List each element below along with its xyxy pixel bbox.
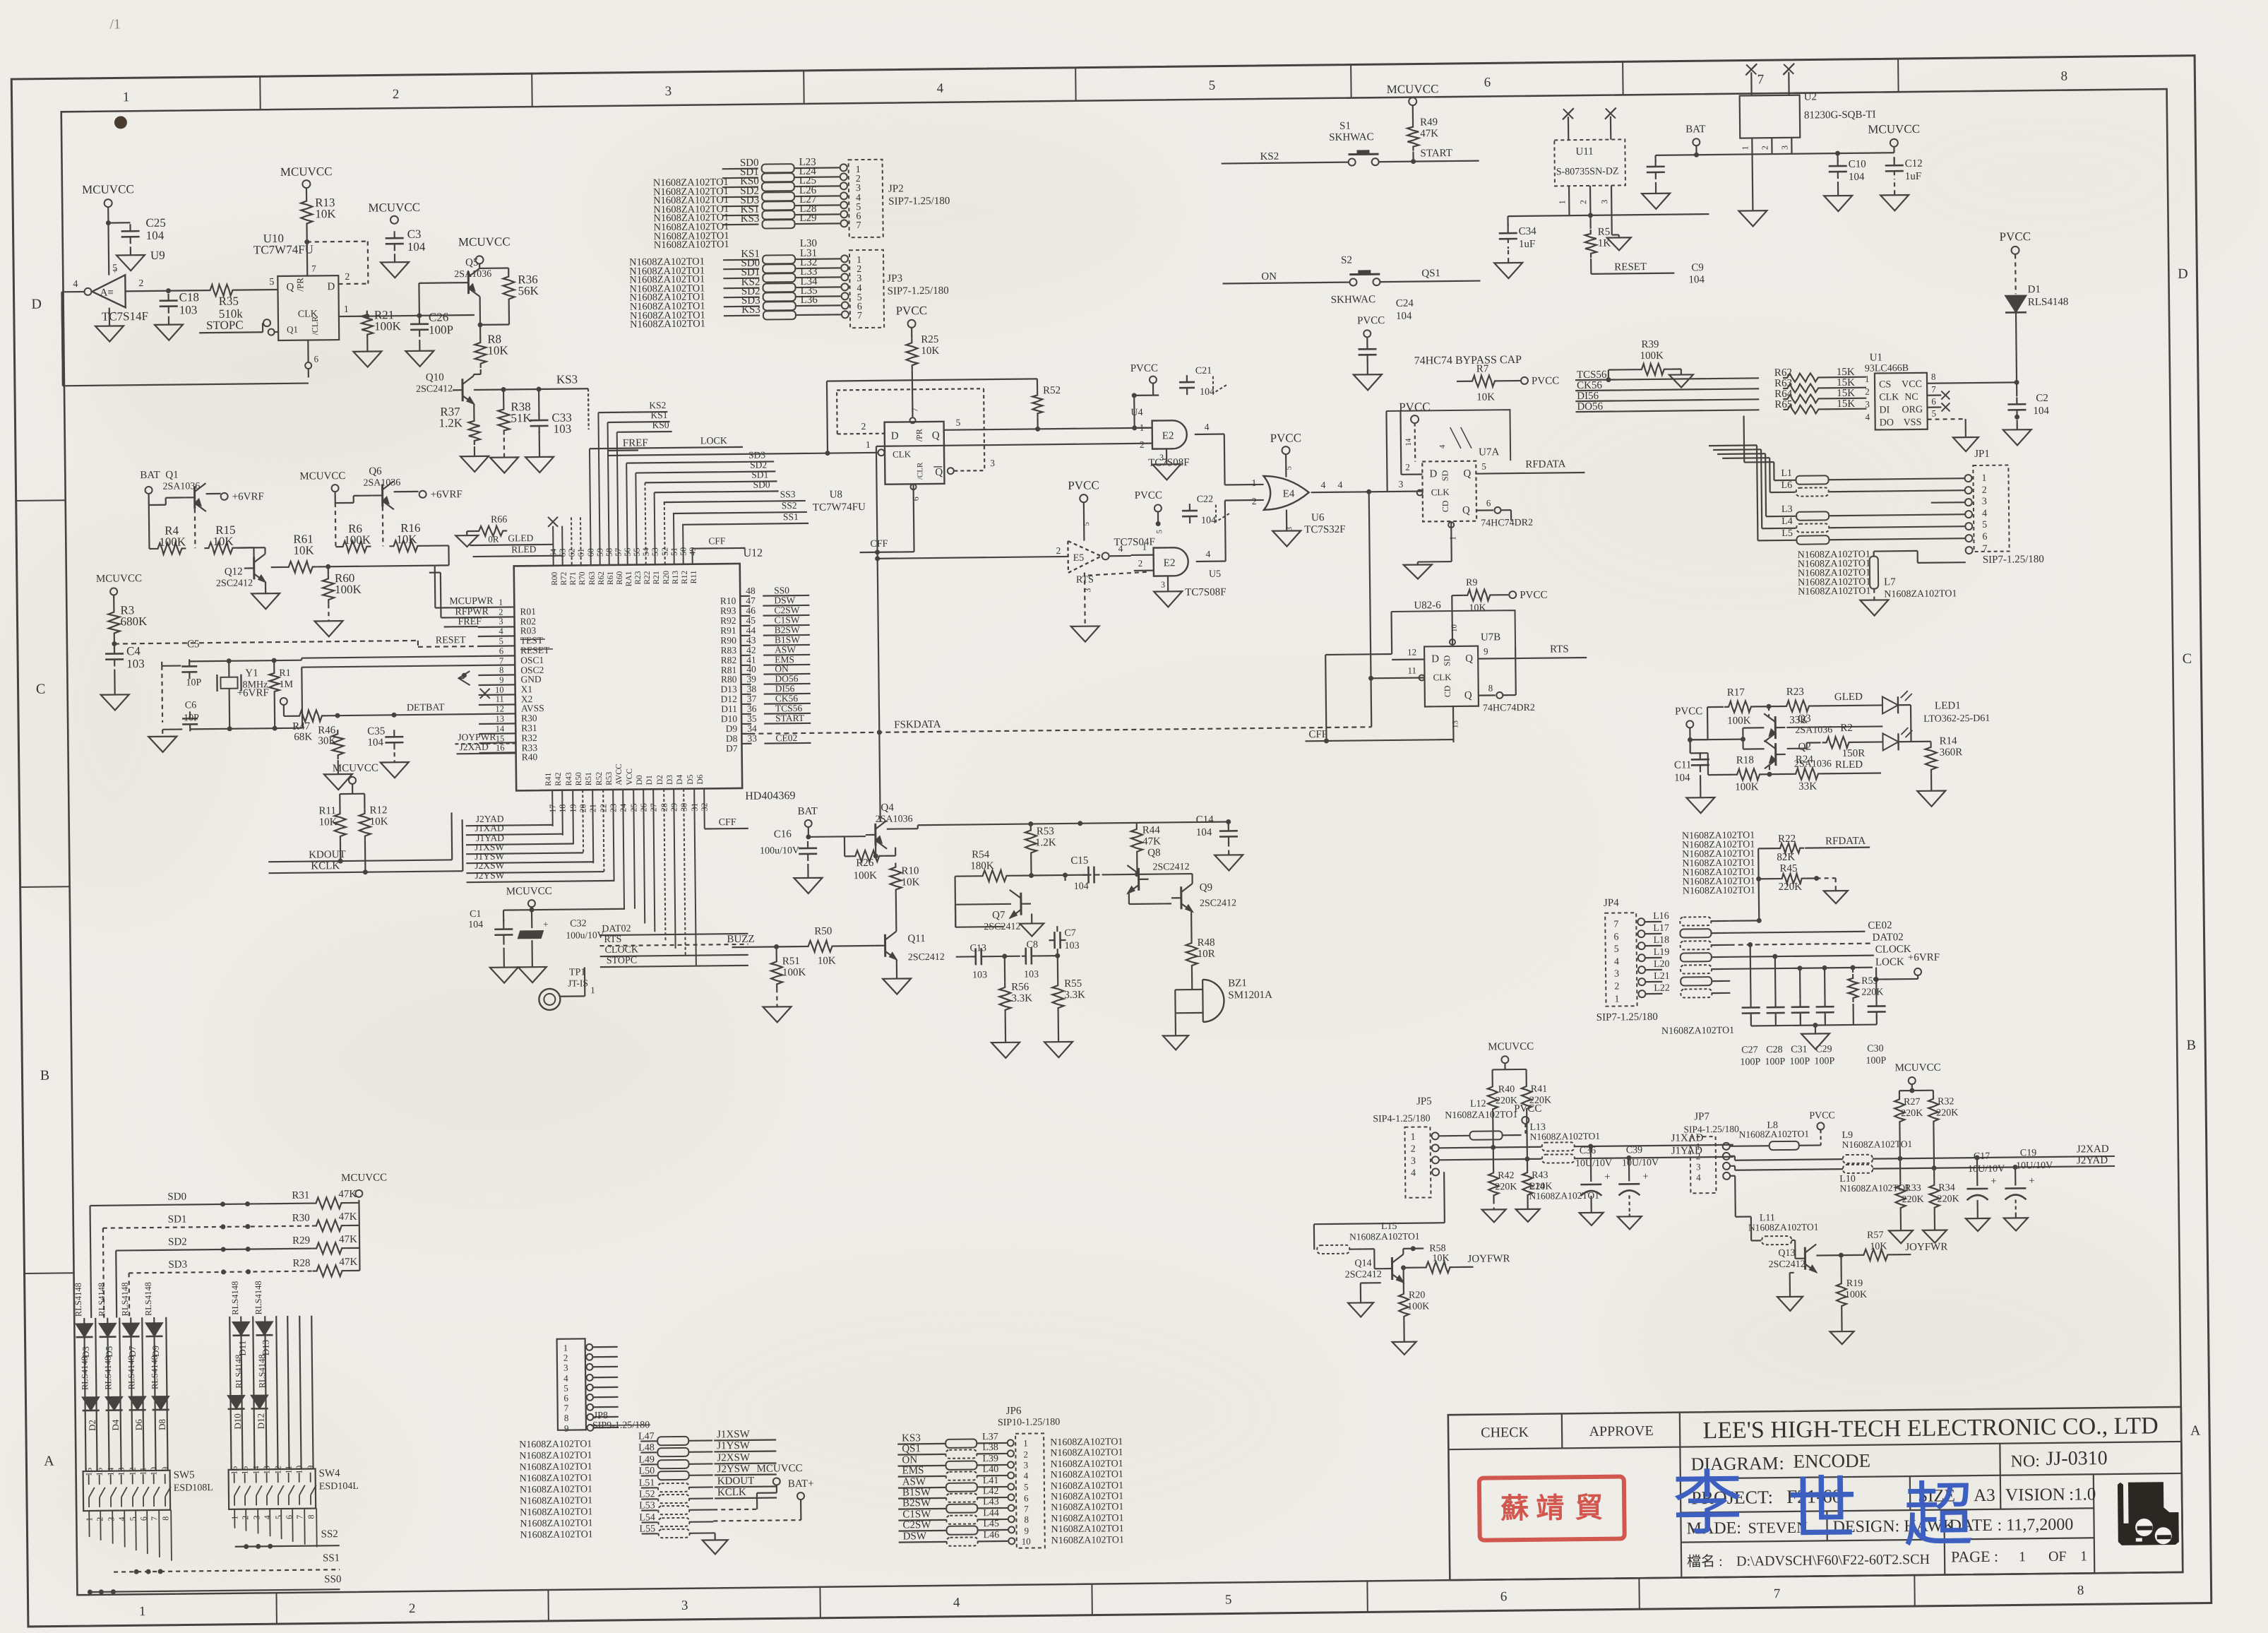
- resistor R9: [1452, 577, 1548, 618]
- svg-text:+6VRF: +6VRF: [431, 489, 462, 500]
- svg-text:Q: Q: [1464, 690, 1472, 701]
- svg-text:220K: 220K: [1779, 881, 1803, 893]
- svg-text:-: -: [113, 306, 117, 316]
- power PVCC (JP5): [1514, 1103, 1542, 1135]
- zone letter band right: [2119, 266, 2209, 1439]
- resistor R55: [1052, 956, 1086, 1013]
- connector JP2: [849, 159, 950, 238]
- svg-text:MCUVCC: MCUVCC: [299, 470, 345, 482]
- svg-text:FREF: FREF: [623, 437, 648, 449]
- svg-text:3: 3: [1411, 1156, 1416, 1167]
- resistor R52: [1032, 385, 1061, 432]
- svg-text:L4: L4: [1781, 516, 1793, 527]
- svg-text:2: 2: [240, 1516, 250, 1520]
- svg-text:+6VRF: +6VRF: [1908, 952, 1940, 963]
- svg-text:PVCC: PVCC: [1809, 1110, 1835, 1121]
- svg-text:A≡: A≡: [100, 287, 113, 299]
- svg-text:1: 1: [344, 304, 349, 315]
- svg-text:7: 7: [1024, 1504, 1029, 1514]
- svg-text:AVCC: AVCC: [615, 764, 623, 785]
- op-amp U9 TC7S14F: [84, 249, 166, 323]
- svg-text:R9: R9: [1466, 578, 1478, 588]
- svg-text:R7: R7: [1476, 363, 1489, 374]
- svg-text:8: 8: [1024, 1514, 1029, 1525]
- svg-text:74HC74 BYPASS CAP: 74HC74 BYPASS CAP: [1414, 354, 1522, 367]
- svg-text:1.2K: 1.2K: [1035, 837, 1056, 848]
- svg-text:52: 52: [659, 547, 669, 556]
- svg-text:3: 3: [1614, 969, 1619, 980]
- inductor L12: [1438, 1098, 1522, 1140]
- svg-text::: :: [1779, 1453, 1784, 1473]
- svg-text:100P: 100P: [1740, 1057, 1760, 1067]
- svg-text:RFPWR: RFPWR: [455, 607, 489, 618]
- resistor R34: [1929, 1168, 1959, 1211]
- svg-text:BAT: BAT: [1685, 124, 1706, 135]
- scan dark spot: [114, 116, 127, 129]
- wire E2a pins: [876, 427, 1264, 489]
- svg-text:5: 5: [112, 263, 117, 273]
- resistor R40: [1488, 1082, 1518, 1150]
- svg-text:53: 53: [650, 547, 659, 556]
- svg-text:3: 3: [1696, 1161, 1701, 1172]
- svg-text:4: 4: [1118, 543, 1123, 554]
- ground (U11 pin3): [1607, 234, 1631, 250]
- svg-text:680K: 680K: [120, 614, 148, 628]
- part labels N1608ZA102TO1 (JP8): [519, 1439, 593, 1540]
- svg-text:220K: 220K: [1530, 1182, 1552, 1192]
- svg-text:220K: 220K: [1902, 1194, 1923, 1205]
- svg-text:C24: C24: [1396, 298, 1414, 309]
- net LOCK (JP4): [1730, 956, 1904, 971]
- wire SW4 column lines: [229, 1316, 313, 1470]
- svg-text:KDOUT: KDOUT: [717, 1475, 755, 1487]
- svg-text:7: 7: [857, 311, 862, 321]
- svg-text:/CLR: /CLR: [916, 462, 924, 480]
- svg-text:3: 3: [1982, 497, 1987, 507]
- svg-text:SD2: SD2: [168, 1236, 187, 1247]
- svg-text:Q14: Q14: [1354, 1258, 1371, 1269]
- svg-text:R23: R23: [1786, 687, 1804, 698]
- svg-text:MCUVCC: MCUVCC: [506, 886, 552, 898]
- svg-text:47K: 47K: [1420, 128, 1438, 139]
- wire U11 row: [1508, 212, 1709, 219]
- svg-text:47K: 47K: [339, 1234, 357, 1245]
- svg-text:100K: 100K: [1407, 1301, 1429, 1312]
- connector JP7: [1683, 1111, 1740, 1194]
- svg-text:D10: D10: [721, 713, 738, 724]
- svg-text:PVCC: PVCC: [1270, 431, 1302, 444]
- ground (R51): [763, 988, 792, 1022]
- svg-text:Q4: Q4: [881, 802, 894, 814]
- svg-text:1: 1: [1865, 374, 1870, 384]
- net J1YAD: [1671, 1145, 1733, 1158]
- svg-text:GLED: GLED: [1834, 691, 1863, 703]
- ground (C17): [1966, 1216, 1990, 1231]
- wire U9 input: [61, 279, 85, 386]
- svg-text:47K: 47K: [338, 1189, 357, 1200]
- resistor R23: [1755, 687, 1814, 727]
- svg-text:Q1: Q1: [165, 470, 179, 481]
- svg-text:15: 15: [95, 1468, 105, 1476]
- node QS1: [1380, 268, 1480, 283]
- svg-text:C11: C11: [1674, 759, 1692, 771]
- svg-text:靖: 靖: [1536, 1492, 1564, 1524]
- svg-text:51K: 51K: [511, 411, 532, 424]
- svg-text:R80: R80: [721, 674, 737, 684]
- svg-text:R03: R03: [520, 625, 537, 636]
- svg-text:11: 11: [138, 1467, 148, 1475]
- svg-text:C13: C13: [970, 943, 987, 954]
- wire U10 CLK out: [339, 303, 475, 319]
- svg-text:2SA1036: 2SA1036: [876, 814, 913, 825]
- svg-text:BZ1: BZ1: [1228, 978, 1247, 989]
- ground (U7A): [1404, 554, 1452, 579]
- svg-text:38: 38: [747, 684, 757, 694]
- svg-text:7: 7: [294, 1515, 304, 1519]
- svg-text:8: 8: [1488, 682, 1493, 693]
- svg-text:10K: 10K: [396, 533, 417, 546]
- svg-text:+6VRF: +6VRF: [237, 687, 269, 699]
- svg-text:TC7W74FU: TC7W74FU: [813, 501, 866, 513]
- svg-text:R52: R52: [1043, 385, 1061, 396]
- svg-text:U8: U8: [830, 489, 843, 500]
- svg-text:DETBAT: DETBAT: [407, 702, 445, 713]
- svg-text:R41: R41: [544, 772, 553, 786]
- power MCUVCC (R13): [280, 165, 333, 188]
- resistor R58: [1403, 1242, 1510, 1283]
- svg-text:24: 24: [618, 804, 628, 812]
- resistor R14: [1911, 735, 1962, 774]
- resistor R39: [1637, 339, 1669, 375]
- svg-text:貿: 貿: [1575, 1492, 1603, 1524]
- ground (JP4 caps): [1801, 1023, 1830, 1050]
- svg-text:1.2K: 1.2K: [438, 416, 462, 429]
- svg-text:CFF: CFF: [708, 535, 726, 546]
- svg-text:2: 2: [409, 1601, 416, 1616]
- svg-text:N1608ZA102TO1: N1608ZA102TO1: [1050, 1459, 1123, 1470]
- svg-text:Q: Q: [935, 467, 943, 478]
- capacitor C17: [1966, 1151, 2005, 1216]
- ground (R14): [1917, 773, 1945, 806]
- svg-text:9: 9: [1024, 1526, 1029, 1536]
- resistor R13: [301, 196, 336, 228]
- svg-text:3: 3: [1023, 1460, 1028, 1471]
- svg-text:FSKDATA: FSKDATA: [894, 719, 941, 731]
- inductor L3: [1766, 502, 1965, 521]
- net GLED: [470, 533, 553, 545]
- svg-text:11: 11: [1407, 665, 1416, 676]
- resistor R27: [1894, 1095, 1923, 1161]
- svg-text:10K: 10K: [921, 345, 939, 357]
- svg-text:R59: R59: [1861, 976, 1878, 987]
- wire R35 to U10: [237, 277, 277, 290]
- svg-text:KS2: KS2: [649, 400, 666, 410]
- svg-text:S-80735SN-DZ: S-80735SN-DZ: [1556, 166, 1619, 177]
- svg-text:R53: R53: [1037, 826, 1054, 837]
- svg-text:R57: R57: [1867, 1230, 1884, 1240]
- resistor R46: [318, 725, 344, 759]
- svg-text:KCLK: KCLK: [717, 1487, 746, 1498]
- svg-text:220K: 220K: [1861, 987, 1883, 997]
- svg-text:ESD108L: ESD108L: [174, 1483, 213, 1494]
- svg-text:N1608ZA102TO1: N1608ZA102TO1: [1445, 1110, 1517, 1121]
- svg-text:R00: R00: [551, 571, 559, 586]
- voltage regulator U11 S-80735SN-DZ: [1554, 139, 1625, 186]
- svg-text:5: 5: [1982, 520, 1987, 530]
- wire U9 out to C18/R35: [125, 278, 205, 294]
- svg-text:1: 1: [563, 1343, 568, 1353]
- svg-text:7: 7: [1931, 384, 1936, 395]
- wire Q4 base: [873, 846, 878, 859]
- antenna mark (U11 pin a): [1563, 108, 1574, 140]
- ground (R20): [1392, 1321, 1416, 1355]
- svg-text:5: 5: [499, 636, 503, 646]
- wire U11 pins down: [1557, 186, 1612, 236]
- ground (R56): [991, 1014, 1020, 1058]
- svg-text:7: 7: [1613, 920, 1618, 930]
- svg-text:DAT02: DAT02: [1872, 932, 1903, 943]
- svg-text:R60: R60: [616, 571, 624, 585]
- svg-text:1: 1: [1410, 1132, 1415, 1143]
- node BUZZ: [727, 933, 804, 950]
- svg-text:U12: U12: [743, 547, 763, 559]
- svg-text:2SC2412: 2SC2412: [216, 578, 253, 589]
- svg-text:RLS4148: RLS4148: [80, 1356, 90, 1390]
- svg-text:JP4: JP4: [1604, 898, 1619, 909]
- svg-text:100P: 100P: [1765, 1057, 1785, 1067]
- svg-text:+: +: [1642, 1171, 1649, 1182]
- svg-text:D13: D13: [261, 1340, 271, 1356]
- svg-text::1.0: :1.0: [2069, 1485, 2096, 1504]
- svg-text:CE02: CE02: [1868, 920, 1892, 931]
- wire BAT to Q1: [149, 494, 185, 505]
- svg-text:JP6: JP6: [1006, 1406, 1022, 1417]
- svg-text:7: 7: [1757, 72, 1765, 87]
- ic U12 top pins: [547, 412, 698, 588]
- svg-text:3: 3: [251, 1515, 261, 1519]
- svg-text:180K: 180K: [970, 860, 994, 872]
- svg-text:2: 2: [499, 607, 503, 617]
- inductor L11: [1730, 1175, 1819, 1259]
- svg-text:3: 3: [1779, 146, 1789, 150]
- svg-text:MCUVCC: MCUVCC: [82, 182, 134, 196]
- svg-text:2: 2: [861, 421, 866, 432]
- svg-text:SIP4-1.25/180: SIP4-1.25/180: [1373, 1113, 1430, 1124]
- svg-text:D2: D2: [656, 775, 664, 785]
- ground (Q12): [251, 582, 280, 609]
- svg-text:RLS4148: RLS4148: [126, 1355, 137, 1389]
- svg-text:7: 7: [564, 1403, 569, 1413]
- svg-text:5: 5: [1614, 944, 1619, 955]
- resistor R5: [1584, 215, 1611, 258]
- svg-text:Q12: Q12: [225, 566, 243, 578]
- svg-text:/PR: /PR: [914, 429, 924, 441]
- capacitor C4: [105, 644, 145, 671]
- svg-text:C31: C31: [1791, 1045, 1808, 1055]
- ground (R21): [353, 338, 381, 367]
- svg-text:0R: 0R: [488, 534, 499, 545]
- svg-text:C28: C28: [1766, 1045, 1783, 1055]
- svg-text:E4: E4: [1283, 488, 1295, 499]
- svg-text:3: 3: [1285, 526, 1294, 530]
- svg-text:MCUVCC: MCUVCC: [333, 763, 378, 775]
- svg-text:CFF: CFF: [1308, 729, 1327, 740]
- svg-text:103: 103: [554, 422, 572, 436]
- ground (C36): [1580, 1210, 1604, 1225]
- ground (C12): [1880, 182, 1909, 210]
- ground (E2b): [1154, 576, 1182, 607]
- svg-text:CLK: CLK: [1433, 672, 1452, 682]
- net CLOCK (JP4): [1730, 944, 1911, 959]
- wire SD bus verticals: [90, 1205, 130, 1318]
- svg-text:TC7S32F: TC7S32F: [1304, 524, 1346, 536]
- connector JP6 header: [998, 1405, 1061, 1428]
- svg-text:R40: R40: [1498, 1084, 1515, 1095]
- svg-text:N1608ZA102TO1: N1608ZA102TO1: [1798, 586, 1870, 598]
- svg-text:D: D: [2178, 266, 2188, 282]
- svg-text:2: 2: [1760, 146, 1769, 150]
- svg-text:1: 1: [1251, 477, 1256, 488]
- svg-text:104: 104: [1201, 516, 1216, 526]
- svg-text:N1608ZA102TO1: N1608ZA102TO1: [1738, 1129, 1809, 1140]
- svg-text:104: 104: [146, 229, 165, 242]
- svg-text:RLS4148: RLS4148: [253, 1281, 264, 1314]
- ground (Q14): [1348, 1283, 1382, 1317]
- svg-text:CK56: CK56: [775, 693, 799, 703]
- svg-text:U5: U5: [1209, 569, 1221, 580]
- wire GND arrow: [458, 671, 470, 685]
- flip-flop U7A 74HC74DR2: [1416, 446, 1533, 530]
- antenna mark (U2 pin4): [1745, 64, 1757, 95]
- svg-text:26: 26: [638, 803, 648, 812]
- power PVCC (D1): [2000, 230, 2031, 294]
- connector JP1 pin circles: [1964, 475, 1972, 554]
- svg-text:R43: R43: [565, 772, 573, 786]
- svg-text:GLED: GLED: [508, 533, 533, 543]
- svg-text:J2XAD: J2XAD: [2077, 1144, 2109, 1155]
- resistor R2: [1822, 722, 1883, 759]
- svg-text:100K: 100K: [853, 870, 877, 881]
- resistor R7: [1468, 363, 1500, 403]
- svg-text:7: 7: [1983, 544, 1988, 554]
- svg-text:47K: 47K: [339, 1257, 357, 1268]
- wire R53 row: [1031, 872, 1091, 878]
- svg-text:1: 1: [1696, 1141, 1701, 1151]
- resistor R24: [1764, 754, 1823, 792]
- svg-text:10: 10: [495, 685, 504, 695]
- svg-text:C36: C36: [1580, 1146, 1596, 1156]
- svg-text:SIP7-1.25/180: SIP7-1.25/180: [887, 285, 948, 297]
- wire U9 vcc stem: [108, 222, 117, 275]
- svg-text:L20: L20: [1654, 959, 1670, 970]
- labels RLS4148 / D10-D13: [230, 1281, 272, 1430]
- svg-text:360R: 360R: [1940, 747, 1963, 758]
- net SS3 SS2 SS1: [664, 489, 809, 525]
- resistor R20: [1399, 1265, 1430, 1321]
- svg-text:C10: C10: [1849, 159, 1866, 170]
- svg-text:14: 14: [106, 1468, 116, 1476]
- resistor R21: [362, 308, 402, 339]
- svg-text:220K: 220K: [1901, 1108, 1923, 1119]
- resistor R33: [1895, 1158, 1924, 1212]
- ground (R39): [1669, 369, 1693, 387]
- svg-text:CFF: CFF: [870, 539, 888, 550]
- svg-text:R22: R22: [643, 571, 652, 585]
- resistor R45: [1758, 862, 1835, 893]
- net J2XAD: [2077, 1144, 2109, 1155]
- diodes D10 D12 RLS4148: [227, 1395, 268, 1409]
- wire Q12 collector: [237, 547, 265, 554]
- node DETBAT: [407, 702, 445, 713]
- buzzer BZ1 SM1201A: [1175, 969, 1272, 1022]
- ground (C9): [1642, 182, 1670, 209]
- part labels N1608ZA102TO1 (JP1): [1798, 550, 1871, 598]
- svg-text:L42: L42: [983, 1486, 999, 1497]
- svg-text:L7: L7: [1884, 576, 1896, 588]
- svg-text:MCUVCC: MCUVCC: [1488, 1041, 1534, 1053]
- svg-text:R49: R49: [1420, 117, 1438, 128]
- svg-text:L19: L19: [1654, 947, 1670, 958]
- ground (R43): [1516, 1199, 1540, 1222]
- svg-text:2: 2: [1411, 1144, 1416, 1155]
- svg-text:47K: 47K: [339, 1211, 357, 1223]
- svg-text:N1608ZA102TO1: N1608ZA102TO1: [1051, 1535, 1124, 1546]
- svg-text:4: 4: [937, 81, 944, 96]
- svg-text:Q9: Q9: [1200, 882, 1213, 893]
- svg-text:12: 12: [128, 1467, 138, 1475]
- svg-text:C14: C14: [1196, 814, 1214, 826]
- capacitor C5: [181, 639, 202, 688]
- net RLED: [472, 544, 562, 557]
- svg-text:1: 1: [1740, 146, 1750, 150]
- svg-text:10K: 10K: [1432, 1253, 1449, 1264]
- wire U8 Q out: [944, 415, 1152, 433]
- svg-text:1: 1: [2019, 1549, 2026, 1564]
- svg-text:4: 4: [1337, 480, 1342, 490]
- svg-text:SS0: SS0: [324, 1574, 341, 1585]
- svg-text:2SC2412: 2SC2412: [416, 384, 453, 395]
- resistor R11: [318, 805, 346, 841]
- ground (Q13): [1777, 1273, 1803, 1311]
- capacitor C26: [410, 310, 453, 337]
- switch SW4 pin numbers: [229, 1466, 316, 1520]
- resistor R15: [204, 523, 237, 554]
- capacitors C27 C28 C31 C29 C30: [1739, 943, 1887, 1067]
- ground (C1): [490, 947, 519, 982]
- connector JP5 pin circles: [1431, 1132, 1439, 1175]
- node RFPWR: [429, 572, 489, 618]
- svg-text:R41: R41: [1531, 1084, 1548, 1095]
- svg-text:3: 3: [1865, 399, 1870, 410]
- net RTS (E5): [1076, 558, 1148, 586]
- led LED1 LTO362-25-D61: [1882, 690, 1991, 751]
- or-gate E4 (U6 TC7S32F): [1251, 475, 1345, 536]
- svg-text:7: 7: [149, 1516, 159, 1521]
- svg-text:10P: 10P: [184, 713, 199, 723]
- capacitor C34: [1498, 216, 1536, 251]
- svg-text:R33: R33: [1904, 1183, 1921, 1194]
- svg-text:54: 54: [640, 547, 650, 556]
- resistor R38: [498, 389, 532, 435]
- svg-text:5: 5: [955, 417, 960, 428]
- svg-text:KCLK: KCLK: [311, 860, 340, 872]
- svg-text:L22: L22: [1654, 983, 1670, 994]
- svg-text:R83: R83: [720, 645, 736, 655]
- svg-text:D10: D10: [232, 1413, 243, 1430]
- nets J2YAD..J2YSW rows: [466, 812, 614, 882]
- svg-text:SD: SD: [1442, 655, 1452, 666]
- capacitor C36: [1575, 1144, 1613, 1210]
